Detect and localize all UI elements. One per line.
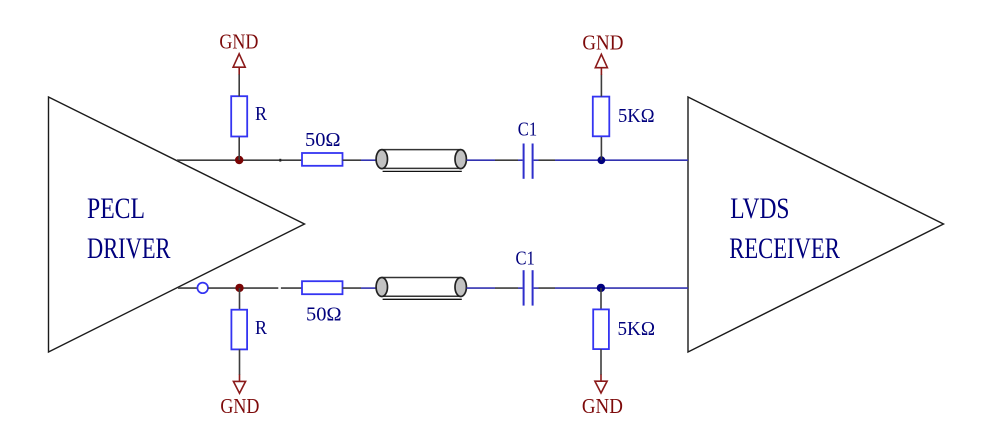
- wire segment after gap (bottom): [281, 287, 302, 289]
- ground bottom-left (GND down arrow): [233, 375, 245, 394]
- wire: resistor R top to GND stem: [238, 74, 240, 96]
- svg-text:GND: GND: [582, 30, 623, 54]
- wire gray after capacitor (bottom): [539, 287, 556, 289]
- wire top row: driver output to resistor R1: [177, 159, 302, 161]
- svg-text:5KΩ: 5KΩ: [618, 318, 656, 340]
- resistor 50ohm (bottom): [302, 281, 343, 294]
- wire gray before capacitor C1 (top): [495, 159, 518, 161]
- resistor 5Kohm (top): [593, 97, 610, 137]
- wire: junction up to 5K resistor (top right): [600, 136, 602, 160]
- wire: 50ohm to transmission line (bottom): [343, 287, 362, 289]
- svg-text:50Ω: 50Ω: [305, 129, 341, 151]
- svg-text:50Ω: 50Ω: [306, 304, 342, 326]
- svg-text:R: R: [255, 103, 267, 125]
- wire blue stub from capacitor (top): [534, 159, 539, 161]
- wire: 5K resistor bottom to GND stem (bottom right): [600, 349, 602, 375]
- wire: junction down to resistor R (bottom): [239, 288, 241, 310]
- transmission line T2 (bottom cylinder): [376, 278, 466, 300]
- wire blue stub into transmission line (bottom): [361, 287, 376, 289]
- wire bottom row: driver inverted output stub: [178, 287, 198, 289]
- svg-text:C1: C1: [518, 118, 537, 140]
- svg-text:GND: GND: [220, 394, 259, 418]
- wire: 5K resistor top to GND stem (top right): [600, 75, 602, 97]
- op-amp U2 LVDS receiver triangle: [688, 97, 944, 352]
- wire: resistor bottom to GND stem (bottom left): [239, 349, 241, 375]
- resistor R (bottom): [231, 310, 247, 350]
- wire: 50ohm to transmission line (top): [343, 159, 362, 161]
- wire blue from transmission line (bottom): [467, 287, 496, 289]
- svg-text:C1: C1: [516, 247, 535, 269]
- resistor R2 50ohm (top): [302, 153, 343, 166]
- capacitor C1 (bottom): [524, 270, 533, 305]
- resistor 5Kohm (bottom): [593, 309, 609, 349]
- wire blue stub from capacitor (bottom): [534, 287, 539, 289]
- wire blue stub to capacitor (bottom): [518, 287, 523, 289]
- wire blue stub to capacitor (top): [518, 159, 523, 161]
- wire blue from transmission line (top): [467, 159, 496, 161]
- node top-left junction: [235, 156, 243, 164]
- svg-text:RECEIVER: RECEIVER: [729, 232, 840, 265]
- wire gray before capacitor C1 (bottom): [495, 287, 518, 289]
- node bottom-left junction: [235, 284, 243, 292]
- svg-text:DRIVER: DRIVER: [87, 232, 171, 265]
- inversion bubble: [197, 283, 208, 294]
- svg-text:PECL: PECL: [87, 192, 145, 225]
- wire: bubble to junction and resistor (bottom): [208, 287, 278, 289]
- wire gray after capacitor (top): [539, 159, 556, 161]
- node bottom-right junction: [597, 284, 605, 292]
- svg-text:GND: GND: [582, 394, 623, 418]
- wire endpoint nub (top row): [279, 159, 281, 162]
- ground bottom-right (GND down arrow): [595, 375, 607, 394]
- node top-right junction: [598, 156, 606, 164]
- transmission line T1 (top cylinder): [376, 150, 466, 172]
- op-amp U1 PECL driver triangle: [49, 97, 305, 352]
- svg-text:R: R: [255, 317, 267, 339]
- wire top-left vertical: junction up to resistor R: [238, 137, 240, 161]
- svg-text:LVDS: LVDS: [730, 192, 789, 225]
- wire blue to receiver (bottom): [555, 287, 688, 289]
- capacitor C1 (top): [524, 144, 533, 179]
- resistor R (top): [231, 96, 247, 136]
- wire blue stub into transmission line (top): [361, 159, 376, 161]
- wire: junction down to 5K resistor (bottom right): [600, 288, 602, 309]
- ground top-left (GND up arrow): [233, 54, 245, 75]
- svg-text:5KΩ: 5KΩ: [618, 105, 655, 127]
- svg-text:GND: GND: [219, 29, 258, 53]
- wire blue to receiver (top): [555, 159, 688, 161]
- ground top-right (GND up arrow): [595, 54, 607, 75]
